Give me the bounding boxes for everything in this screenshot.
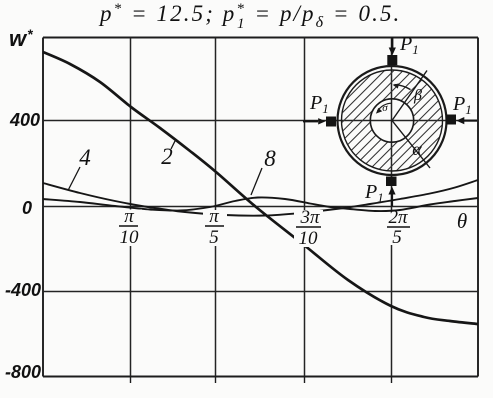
gridline x=2pi/5	[391, 38, 393, 377]
top border	[43, 37, 478, 39]
svg-text:5: 5	[392, 227, 402, 248]
left load square	[326, 117, 336, 127]
svg-text:P1: P1	[309, 92, 329, 116]
curve 4	[43, 180, 478, 216]
gridline x=pi/10	[130, 38, 132, 377]
x tick label pi/10	[117, 206, 142, 248]
outer circle of ring	[338, 66, 447, 175]
svg-text:5: 5	[209, 227, 219, 248]
svg-text:-800: -800	[5, 362, 41, 382]
gridline y=400	[43, 120, 478, 122]
right border	[477, 38, 479, 377]
svg-text:π: π	[124, 206, 134, 227]
x tick label pi/5	[203, 206, 227, 248]
leader for label 8	[251, 168, 262, 195]
gridline y=-400	[43, 291, 478, 293]
curve 2	[43, 52, 478, 324]
top arrow P1	[389, 38, 396, 56]
right arrow P1	[456, 117, 477, 124]
svg-text:θ: θ	[457, 209, 467, 233]
svg-text:β: β	[413, 87, 422, 104]
svg-text:P1: P1	[452, 93, 472, 117]
svg-text:0: 0	[22, 198, 32, 218]
axis frame	[43, 38, 478, 377]
hole circle	[370, 99, 413, 142]
svg-text:p* = 12.5; p*1 = p/pδ = 0.5.: p* = 12.5; p*1 = p/pδ = 0.5.	[98, 1, 401, 32]
svg-text:4: 4	[79, 145, 91, 170]
x tick label 3pi/10	[294, 207, 323, 249]
svg-text:8: 8	[264, 146, 276, 171]
top load square	[387, 55, 397, 65]
bottom load square	[386, 177, 397, 187]
svg-text:α: α	[412, 139, 422, 159]
alpha radial line	[392, 121, 430, 169]
gridline x=pi/5	[215, 38, 217, 377]
svg-text:10: 10	[299, 228, 319, 249]
svg-text:3π: 3π	[299, 207, 320, 228]
x tick label 2pi/5	[385, 207, 412, 248]
beta angle arc	[395, 85, 411, 90]
svg-text:w*: w*	[9, 26, 34, 51]
y-axis	[42, 38, 44, 377]
bottom tick marks	[131, 376, 392, 383]
right load square	[446, 115, 457, 125]
svg-text:-400: -400	[5, 280, 41, 300]
curve 8	[43, 197, 478, 211]
leader for label 4	[69, 167, 81, 190]
gridline x=3pi/10	[304, 38, 306, 377]
svg-text:400: 400	[9, 110, 40, 130]
gridlines	[43, 38, 478, 377]
sigma angle arc	[378, 103, 393, 111]
beta radial line	[392, 71, 427, 121]
svg-text:10: 10	[120, 227, 140, 248]
svg-text:σ: σ	[382, 102, 388, 114]
beta arc arrowhead	[393, 83, 400, 88]
gridline y=0	[43, 206, 478, 208]
sigma arc arrowhead	[376, 108, 382, 114]
leader for label 2	[171, 139, 176, 149]
svg-text:π: π	[209, 206, 219, 227]
bottom border (-800 line)	[43, 376, 478, 378]
bottom arrow P1	[388, 187, 395, 207]
svg-text:P1: P1	[364, 181, 384, 205]
svg-text:2π: 2π	[388, 207, 408, 228]
left arrow P1	[303, 118, 326, 124]
inner circle of ring	[342, 70, 443, 171]
